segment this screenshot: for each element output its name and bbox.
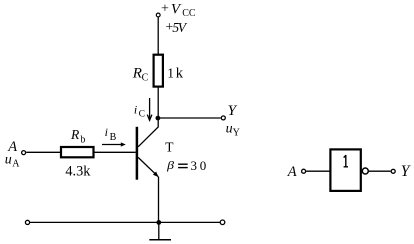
svg-text:Y: Y [228, 103, 238, 119]
svg-text:A: A [287, 164, 297, 180]
wire gate input [306, 170, 330, 172]
svg-text:+5V: +5V [165, 19, 188, 35]
node Y terminal [221, 116, 225, 120]
transistor T collector lead [138, 118, 158, 147]
inversion bubble [362, 168, 368, 174]
svg-text:+VCC: +VCC [161, 1, 196, 19]
node bottom-right terminal [220, 220, 225, 225]
transistor T emitter lead [138, 157, 158, 177]
svg-text:iC: iC [134, 102, 145, 119]
svg-text:β30: β30 [166, 158, 206, 173]
wire gate output [368, 170, 390, 172]
label beta=30 [178, 163, 188, 165]
svg-text:RC: RC [132, 66, 149, 84]
svg-text:4.3k: 4.3k [65, 164, 91, 180]
wire A terminal to Rb [26, 151, 61, 153]
wire Rc to collector node [157, 88, 159, 119]
ground [149, 222, 171, 239]
svg-text:uA: uA [5, 153, 20, 170]
node VCC terminal [156, 13, 160, 17]
resistor Rb [61, 147, 94, 157]
svg-text:T: T [165, 139, 174, 154]
svg-text:Y: Y [401, 163, 411, 180]
svg-text:1k: 1k [167, 65, 184, 81]
transistor T base bar [136, 127, 139, 180]
svg-text:uY: uY [226, 121, 240, 138]
wire Rb to base [95, 151, 136, 153]
node bottom-left terminal [25, 220, 29, 224]
wire collector node to Y terminal [158, 117, 221, 119]
wire emitter to ground rail [158, 177, 160, 223]
current arrow iC [147, 98, 152, 120]
node gate input terminal [302, 169, 306, 173]
svg-text:Rb: Rb [70, 127, 85, 145]
current arrow iB [102, 142, 126, 146]
junction emitter-rail [156, 220, 161, 225]
resistor RC [154, 55, 163, 87]
node gate output terminal [391, 169, 395, 173]
label 1 [344, 155, 348, 167]
wire ground rail [30, 221, 220, 223]
logic gate U1 (inverter box) [330, 149, 360, 191]
junction collector node [156, 116, 161, 121]
node A terminal [22, 151, 26, 155]
wire VCC to Rc [157, 17, 159, 55]
svg-text:iB: iB [105, 125, 117, 143]
